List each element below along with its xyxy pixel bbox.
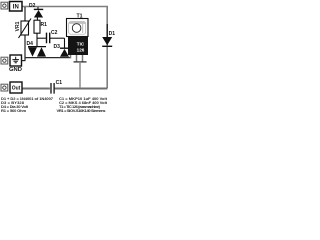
svg-text:126: 126 — [77, 47, 85, 52]
svg-text:C1: C1 — [56, 80, 63, 86]
svg-text:D2: D2 — [29, 3, 36, 9]
svg-text:D3: D3 — [54, 44, 61, 50]
svg-text:VR1 = SIOV-S10K140 Siemens: VR1 = SIOV-S10K140 Siemens — [57, 108, 107, 113]
svg-text:GND: GND — [9, 67, 22, 73]
svg-text:VR1: VR1 — [15, 21, 21, 31]
svg-text:Out: Out — [12, 86, 21, 92]
svg-text:IN: IN — [13, 4, 19, 10]
svg-text:R1: R1 — [41, 22, 48, 28]
svg-text:C2: C2 — [51, 30, 58, 36]
svg-text:D1: D1 — [109, 31, 115, 37]
svg-text:TIC: TIC — [77, 41, 85, 46]
svg-text:R1 = 560 Ohm: R1 = 560 Ohm — [1, 108, 26, 113]
